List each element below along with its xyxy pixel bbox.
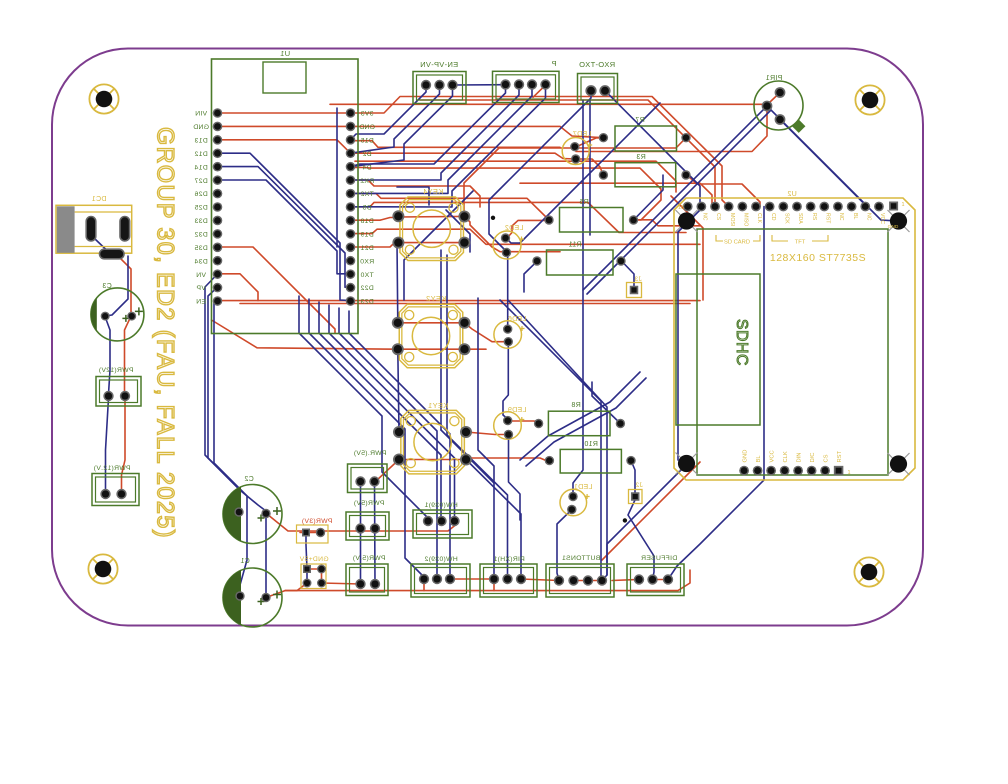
svg-text:D34: D34 [194, 258, 207, 265]
svg-text:KEY4: KEY4 [423, 187, 443, 196]
svg-text:LED2: LED2 [505, 225, 524, 232]
svg-text:R8: R8 [571, 402, 581, 409]
svg-text:D4: D4 [362, 164, 371, 171]
svg-text:RS: RS [811, 213, 817, 221]
svg-text:GND+5V: GND+5V [299, 556, 328, 563]
svg-text:C3: C3 [102, 283, 112, 290]
svg-text:P: P [551, 59, 556, 68]
svg-text:VP: VP [196, 285, 206, 292]
svg-text:VCC: VCC [769, 450, 775, 462]
svg-text:R7: R7 [635, 117, 645, 124]
svg-text:3V3: 3V3 [361, 111, 374, 118]
svg-text:CS: CS [823, 454, 829, 462]
svg-text:D21: D21 [360, 245, 373, 252]
svg-text:U2: U2 [787, 191, 797, 198]
svg-text:PWR(12V): PWR(12V) [99, 367, 134, 374]
svg-text:PWR(5.V): PWR(5.V) [353, 555, 386, 562]
svg-text:VIN: VIN [195, 111, 207, 118]
svg-text:LED7: LED7 [573, 131, 592, 138]
svg-text:SCK: SCK [784, 213, 790, 224]
svg-text:U1: U1 [280, 49, 290, 58]
svg-text:16: 16 [678, 205, 684, 211]
svg-text:BUTTONS1: BUTTONS1 [562, 555, 601, 562]
svg-text:D23: D23 [360, 299, 373, 306]
svg-text:KEY1: KEY1 [428, 401, 448, 410]
svg-text:R5: R5 [579, 199, 589, 206]
svg-text:KEY2: KEY2 [426, 294, 446, 303]
svg-text:128X160 ST7735S: 128X160 ST7735S [770, 252, 866, 264]
svg-text:D33: D33 [194, 218, 207, 225]
svg-text:SD CARD: SD CARD [724, 240, 750, 246]
svg-text:RST: RST [837, 450, 843, 462]
svg-text:R10: R10 [584, 441, 598, 448]
svg-text:DIFFUSER: DIFFUSER [641, 555, 677, 562]
svg-text:EN-VP-VN: EN-VP-VN [420, 60, 458, 69]
svg-text:NC: NC [838, 213, 844, 221]
svg-text:RST: RST [825, 213, 831, 224]
svg-text:NC: NC [702, 213, 708, 221]
svg-text:J3: J3 [634, 276, 642, 283]
svg-text:EN: EN [196, 299, 206, 306]
svg-text:DIN: DIN [796, 453, 802, 463]
svg-text:TX0: TX0 [360, 272, 373, 279]
svg-text:D12: D12 [194, 151, 207, 158]
svg-text:RX0: RX0 [360, 258, 374, 265]
svg-text:RXO-TXO: RXO-TXO [579, 60, 615, 69]
svg-text:GND: GND [193, 124, 209, 131]
svg-text:VCC: VCC [879, 213, 885, 224]
svg-text:J2: J2 [635, 482, 643, 489]
svg-text:BL: BL [756, 455, 762, 463]
svg-text:D/C: D/C [810, 453, 816, 463]
svg-text:LED1: LED1 [574, 484, 593, 491]
svg-text:DC1: DC1 [92, 196, 107, 203]
svg-text:HW(039)1: HW(039)1 [424, 502, 457, 509]
svg-text:1: 1 [847, 470, 850, 476]
svg-text:D26: D26 [194, 191, 207, 198]
svg-text:PIR(XH)1: PIR(XH)1 [493, 556, 524, 563]
svg-text:BL: BL [852, 213, 858, 219]
svg-text:CD: CD [770, 213, 776, 221]
svg-text:PWR(3V): PWR(3V) [302, 518, 333, 525]
svg-text:CLK: CLK [783, 451, 789, 462]
svg-text:RX2: RX2 [360, 178, 374, 185]
svg-text:GND: GND [888, 224, 899, 230]
svg-text:GND: GND [742, 450, 748, 463]
svg-text:D27: D27 [194, 178, 207, 185]
svg-text:PWR.(5V): PWR.(5V) [354, 450, 387, 457]
svg-text:1: 1 [901, 202, 904, 208]
svg-text:PIR1: PIR1 [766, 75, 783, 82]
svg-text:D5: D5 [362, 205, 371, 212]
svg-text:MISO: MISO [743, 213, 749, 226]
svg-text:R3: R3 [636, 154, 646, 161]
svg-text:GND: GND [359, 124, 375, 131]
svg-text:C2: C2 [244, 476, 254, 483]
svg-text:LED9: LED9 [508, 407, 527, 414]
svg-text:D35: D35 [194, 245, 207, 252]
svg-text:D25: D25 [194, 205, 207, 212]
svg-text:D2: D2 [362, 151, 371, 158]
svg-text:D19: D19 [360, 231, 373, 238]
svg-text:GROUP 30, ED2 (FAU, FALL 2025): GROUP 30, ED2 (FAU, FALL 2025) [152, 127, 179, 539]
svg-text:D32: D32 [194, 231, 207, 238]
svg-text:SDHC: SDHC [733, 319, 750, 366]
svg-text:MOSI: MOSI [729, 213, 735, 226]
svg-text:R11: R11 [568, 242, 581, 249]
svg-text:D14: D14 [194, 164, 207, 171]
svg-text:PWR(5V): PWR(5V) [354, 500, 385, 507]
svg-text:CLK: CLK [756, 213, 762, 224]
svg-text:VN: VN [196, 272, 206, 279]
svg-text:SDA: SDA [797, 213, 803, 224]
svg-text:D15: D15 [360, 137, 373, 144]
svg-text:TX2: TX2 [360, 191, 373, 198]
svg-text:LED6: LED6 [508, 316, 527, 323]
svg-text:HW(039)2: HW(039)2 [424, 556, 457, 563]
svg-text:D22: D22 [360, 285, 373, 292]
svg-text:C1: C1 [240, 558, 250, 565]
svg-text:NC: NC [865, 213, 871, 221]
svg-text:CS: CS [715, 213, 721, 221]
svg-text:PWR(12.V): PWR(12.V) [93, 465, 130, 472]
svg-text:TFT: TFT [795, 240, 806, 246]
svg-text:D18: D18 [360, 218, 373, 225]
svg-text:D13: D13 [194, 137, 207, 144]
